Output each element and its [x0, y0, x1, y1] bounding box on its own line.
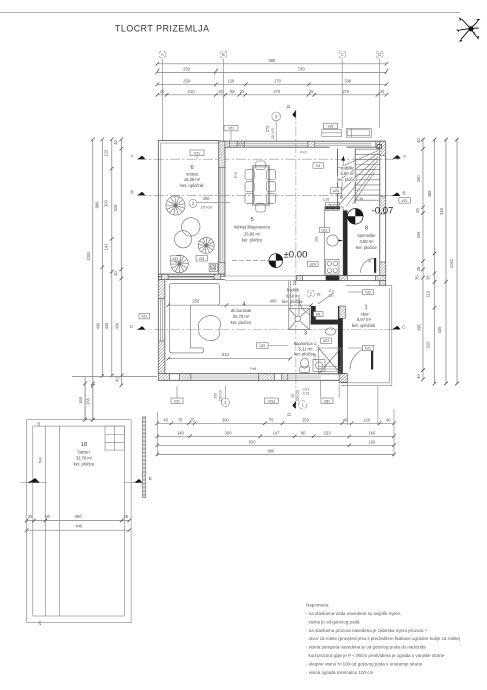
svg-text:436: 436 [96, 322, 101, 330]
svg-text:390: 390 [75, 514, 83, 519]
top wall band [219, 141, 386, 147]
svg-text:25: 25 [415, 208, 420, 213]
svg-text:6: 6 [190, 165, 193, 171]
svg-text:dn.boravak: dn.boravak [231, 308, 252, 313]
svg-text:1: 1 [364, 305, 367, 311]
terrace bottom wall [158, 274, 225, 279]
svg-text:436: 436 [115, 322, 120, 330]
room 8 text [356, 226, 377, 251]
dim 250 in living room [168, 304, 226, 306]
fan plant 3 [171, 255, 189, 273]
room 8 door arc [361, 258, 377, 273]
grid stem A [161, 59, 163, 141]
svg-text:VZ1: VZ1 [199, 257, 205, 261]
svg-text:UZ2: UZ2 [259, 344, 265, 348]
svg-text:250: 250 [183, 78, 191, 83]
svg-text:VZ2: VZ2 [365, 291, 371, 295]
section line E [21, 476, 152, 483]
bush circle 2 [175, 231, 192, 248]
svg-text:40: 40 [380, 89, 385, 94]
svg-text:hodnik: hodnik [287, 288, 300, 293]
section line D vertical [286, 104, 296, 416]
svg-text:kod prozora gdje je P < 90cm p: kod prozora gdje je P < 90cm predviđena … [309, 653, 445, 658]
grid bubble C [339, 51, 346, 58]
roller shutter box windows above top wall [322, 128, 372, 137]
shower [289, 309, 310, 330]
svg-text:35: 35 [426, 275, 431, 280]
svg-text:TLOCRT PRIZEMLJA: TLOCRT PRIZEMLJA [115, 24, 210, 34]
svg-text:C: C [341, 52, 344, 57]
svg-text:stubište: stubište [340, 165, 355, 170]
svg-text:25: 25 [240, 89, 245, 94]
svg-text:VZ1: VZ1 [365, 347, 371, 351]
room 5 text [234, 217, 270, 243]
svg-text:25: 25 [190, 417, 195, 422]
svg-text:488: 488 [427, 190, 432, 198]
svg-text:40: 40 [113, 140, 118, 145]
svg-text:VZ1: VZ1 [172, 257, 178, 261]
svg-text:1052: 1052 [86, 251, 91, 261]
svg-text:25: 25 [124, 514, 129, 519]
top dimension block [156, 51, 389, 141]
svg-text:400: 400 [270, 299, 278, 304]
svg-text:165: 165 [85, 397, 90, 405]
bush circle [182, 218, 200, 236]
svg-text:220+20: 220+20 [271, 128, 275, 140]
section line A [130, 153, 407, 159]
dim 510 [168, 358, 290, 360]
svg-text:Napomena:: Napomena: [306, 603, 329, 608]
svg-text:spremište: spremište [358, 233, 377, 238]
svg-text:206: 206 [416, 231, 421, 239]
svg-text:ker. pločice: ker. pločice [282, 299, 303, 304]
svg-text:40: 40 [416, 138, 421, 143]
bottom dimension block [156, 417, 396, 456]
svg-text:terasa: terasa [186, 172, 198, 177]
svg-text:25: 25 [38, 621, 42, 625]
entry door arc [350, 348, 373, 370]
svg-text:UZ1: UZ1 [321, 228, 327, 232]
svg-text:40: 40 [115, 377, 120, 382]
svg-text:36: 36 [416, 266, 421, 271]
svg-text:5,50 m²: 5,50 m² [340, 171, 355, 176]
svg-text:528: 528 [113, 204, 118, 212]
svg-text:25: 25 [309, 89, 314, 94]
VZ1 labels top [190, 150, 204, 156]
right wall band [380, 141, 386, 285]
svg-text:ker. pločice: ker. pločice [337, 177, 358, 182]
bathroom door arc [299, 298, 316, 315]
svg-text:250: 250 [416, 175, 421, 183]
dim row 250/128/270/338 [157, 83, 386, 85]
terrace plants [166, 196, 214, 273]
svg-text:A: A [161, 52, 164, 57]
wall terrace/room5 [219, 141, 238, 276]
washbasin [325, 328, 335, 335]
svg-text:6,97 m²: 6,97 m² [357, 317, 372, 322]
svg-text:325: 325 [426, 341, 431, 349]
grid bubble A [159, 51, 166, 58]
bottom wall band [158, 374, 347, 383]
svg-text:25: 25 [28, 514, 33, 519]
svg-text:ker. pločice: ker. pločice [356, 245, 377, 250]
svg-text:2: 2 [293, 280, 296, 286]
svg-text:5: 5 [251, 217, 254, 223]
svg-text:VZ1: VZ1 [402, 199, 408, 203]
+-0.00 marker [232, 250, 318, 268]
open-plan edge below room5 [225, 275, 297, 277]
top border line [0, 12, 460, 14]
svg-text:3,58 m²: 3,58 m² [359, 239, 374, 244]
svg-text:2,19: 2,19 [303, 391, 309, 395]
svg-text:250: 250 [192, 299, 200, 304]
svg-text:80: 80 [301, 430, 306, 435]
fence strip section E [142, 417, 145, 498]
svg-text:kuhinja /blagovaonica: kuhinja /blagovaonica [234, 225, 270, 230]
terrace door label [189, 199, 197, 207]
svg-text:4: 4 [242, 302, 245, 308]
svg-text:128: 128 [227, 78, 235, 83]
svg-text:90: 90 [368, 259, 372, 263]
svg-text:ulaz: ulaz [361, 311, 369, 316]
svg-text:300: 300 [214, 393, 218, 399]
svg-text:255: 255 [302, 417, 310, 422]
grid stem C [341, 59, 343, 128]
svg-text:40: 40 [160, 89, 165, 94]
svg-text:210: 210 [188, 89, 196, 94]
svg-text:ker. pločice: ker. pločice [242, 238, 263, 243]
svg-text:C: C [402, 324, 406, 330]
hall/bath top wall [297, 276, 386, 281]
room 4 text [231, 302, 253, 326]
svg-text:2,15: 2,15 [313, 354, 317, 361]
room 6 text [180, 165, 204, 188]
floor drain fixture [209, 263, 217, 271]
svg-text:300: 300 [203, 196, 211, 201]
washing machine [313, 360, 325, 372]
room 1 text [352, 305, 376, 329]
svg-text:220: 220 [328, 294, 334, 298]
room 2 text [282, 280, 303, 304]
svg-text:VZ1: VZ1 [194, 151, 200, 155]
dim 400 [226, 304, 311, 306]
dining table [245, 161, 276, 212]
entrance porch boundary [341, 286, 392, 386]
svg-text:18: 18 [81, 442, 87, 448]
svg-text:D: D [287, 412, 293, 416]
svg-text:UZ3: UZ3 [323, 339, 329, 343]
svg-text:VZ1: VZ1 [174, 399, 180, 403]
svg-text:5,11 m²: 5,11 m² [299, 346, 313, 351]
left wall band below terrace [158, 277, 165, 381]
svg-text:1,32: 1,32 [322, 198, 329, 202]
left dimension block [72, 138, 157, 422]
svg-text:VZ1: VZ1 [141, 315, 147, 319]
svg-text:120: 120 [363, 417, 371, 422]
svg-text:110: 110 [426, 290, 431, 297]
svg-text:75: 75 [178, 417, 183, 422]
svg-text:435: 435 [437, 326, 442, 334]
svg-text:147: 147 [273, 430, 281, 435]
svg-text:bet. opločnik: bet. opločnik [352, 323, 376, 328]
svg-text:VZ1: VZ1 [228, 127, 234, 131]
entry steps [319, 348, 342, 398]
svg-text:820: 820 [249, 439, 257, 444]
svg-text:D4: D4 [316, 164, 320, 168]
living/hall divider [287, 281, 289, 309]
svg-text:540: 540 [39, 457, 43, 463]
svg-text:270+20: 270+20 [201, 206, 213, 210]
svg-text:-0.07: -0.07 [372, 206, 394, 217]
svg-text:510: 510 [222, 352, 230, 357]
svg-text:436: 436 [104, 322, 109, 330]
living room sofa [169, 283, 219, 353]
toilet [300, 358, 310, 372]
svg-text:165: 165 [78, 396, 83, 404]
svg-text:40: 40 [163, 417, 168, 422]
fan plant 2 [198, 237, 214, 253]
svg-text:988: 988 [95, 201, 100, 209]
svg-text:515: 515 [439, 207, 444, 215]
svg-text:220+20: 220+20 [296, 390, 300, 401]
svg-text:291: 291 [315, 236, 319, 242]
svg-text:B: B [222, 52, 225, 57]
-0.07 marker [348, 206, 394, 225]
svg-text:50: 50 [45, 514, 50, 519]
svg-text:338: 338 [344, 78, 352, 83]
svg-text:26,86 m²: 26,86 m² [244, 231, 261, 236]
svg-text:Pr8: Pr8 [250, 366, 256, 371]
svg-text:visina je od gotovog poda: visina je od gotovog poda [309, 619, 361, 624]
svg-text:20,70 m²: 20,70 m² [233, 314, 250, 319]
svg-text:270: 270 [273, 89, 281, 94]
svg-text:P+0: P+0 [300, 150, 307, 154]
coffee table blob [198, 315, 220, 340]
room 3 text [294, 331, 317, 357]
thick wall kitchen/room8 [343, 210, 347, 275]
dim row 40/210/40/60/25/270/25/270/40 [157, 94, 386, 96]
svg-text:8: 8 [365, 226, 368, 232]
svg-text:ker. pločice: ker. pločice [231, 320, 252, 325]
section line B [130, 190, 410, 204]
svg-text:B: B [402, 190, 405, 196]
section line C [130, 313, 406, 330]
svg-text:270: 270 [265, 125, 270, 133]
svg-text:440: 440 [75, 524, 83, 529]
svg-text:- visina ograda minimalno 100: - visina ograda minimalno 100 cm [306, 670, 374, 675]
svg-text:250: 250 [183, 66, 191, 71]
svg-text:D: D [286, 104, 292, 108]
stairs [300, 145, 382, 210]
right dimension block [415, 138, 459, 386]
svg-text:VZ1a: VZ1a [268, 399, 276, 403]
svg-text:270: 270 [342, 89, 350, 94]
svg-text:ker. pločice: ker. pločice [74, 462, 95, 467]
svg-text:160: 160 [368, 430, 376, 435]
dim row 250/730 [157, 71, 386, 73]
svg-text:35: 35 [415, 275, 420, 280]
svg-text:396: 396 [417, 323, 422, 331]
svg-text:113: 113 [328, 289, 334, 293]
north compass [460, 19, 479, 39]
kitchen counter [315, 202, 344, 275]
svg-text:40: 40 [386, 417, 391, 422]
svg-text:bet. opločnik: bet. opločnik [180, 183, 204, 188]
svg-text:980: 980 [268, 58, 276, 63]
svg-text:- visina parapeta navedena je: - visina parapeta navedena je od gotovog… [306, 645, 426, 650]
grid stem B [222, 59, 224, 141]
svg-text:C: C [130, 324, 134, 330]
svg-text:60: 60 [230, 89, 235, 94]
svg-text:40: 40 [113, 271, 118, 276]
grid bubble B [220, 51, 227, 58]
dim row 980 [157, 63, 386, 65]
grid stem D [379, 59, 381, 128]
svg-text:300: 300 [225, 430, 233, 435]
svg-text:16,06 m²: 16,06 m² [184, 177, 201, 182]
svg-text:32,76 m²: 32,76 m² [76, 456, 93, 461]
svg-text:300: 300 [104, 199, 109, 207]
svg-text:D5: D5 [316, 312, 320, 316]
fan plant 1 [166, 196, 185, 215]
pool connector dims [84, 384, 86, 420]
svg-text:40: 40 [218, 89, 223, 94]
svg-text:UZ4: UZ4 [310, 262, 316, 266]
svg-text:bazen: bazen [78, 450, 90, 455]
svg-text:- na stavkama prozora navedena: - na stavkama prozora navedena je zidars… [306, 628, 428, 633]
svg-text:141: 141 [104, 243, 109, 251]
svg-text:89: 89 [317, 293, 321, 297]
svg-text:VZ1: VZ1 [328, 125, 334, 129]
svg-text:25: 25 [37, 422, 41, 426]
svg-text:1052: 1052 [449, 258, 454, 268]
svg-text:90: 90 [291, 394, 295, 398]
svg-text:220+20: 220+20 [219, 390, 223, 401]
svg-text:160: 160 [368, 439, 376, 444]
svg-text:otvor za rolete (provjeriti je: otvor za rolete (provjeriti jesu li pred… [309, 636, 461, 641]
svg-text:kupaonica 1: kupaonica 1 [294, 341, 317, 346]
pool steps [105, 426, 124, 450]
svg-text:153: 153 [324, 430, 332, 435]
svg-text:±0.00: ±0.00 [284, 250, 308, 261]
bathroom walls [311, 306, 346, 374]
bottom labels row: VZ1 boxes, bubbles [171, 386, 333, 410]
bubble 3 with stem [272, 112, 281, 121]
svg-text:140: 140 [177, 430, 185, 435]
terrace outline (room 6) [158, 141, 219, 277]
svg-text:270: 270 [274, 78, 282, 83]
svg-text:730: 730 [298, 66, 306, 71]
svg-text:3: 3 [304, 331, 307, 337]
svg-text:125: 125 [104, 149, 109, 157]
svg-text:- na stavkama vrata navedene s: - na stavkama vrata navedene su svijetle… [306, 611, 401, 616]
svg-text:75: 75 [269, 417, 274, 422]
svg-text:P+0: P+0 [234, 172, 238, 179]
svg-text:300: 300 [222, 417, 230, 422]
grid bubble D [376, 51, 383, 58]
svg-text:B: B [130, 190, 133, 196]
svg-text:D: D [378, 52, 381, 57]
svg-text:1,38: 1,38 [356, 197, 363, 201]
svg-text:980: 980 [267, 448, 275, 453]
svg-text:E: E [149, 476, 152, 482]
svg-text:UZ4: UZ4 [333, 189, 339, 193]
svg-text:40: 40 [416, 374, 421, 379]
svg-text:- ukupne visine h=100 od gotov: - ukupne visine h=100 od gotovog poda s … [306, 661, 423, 666]
